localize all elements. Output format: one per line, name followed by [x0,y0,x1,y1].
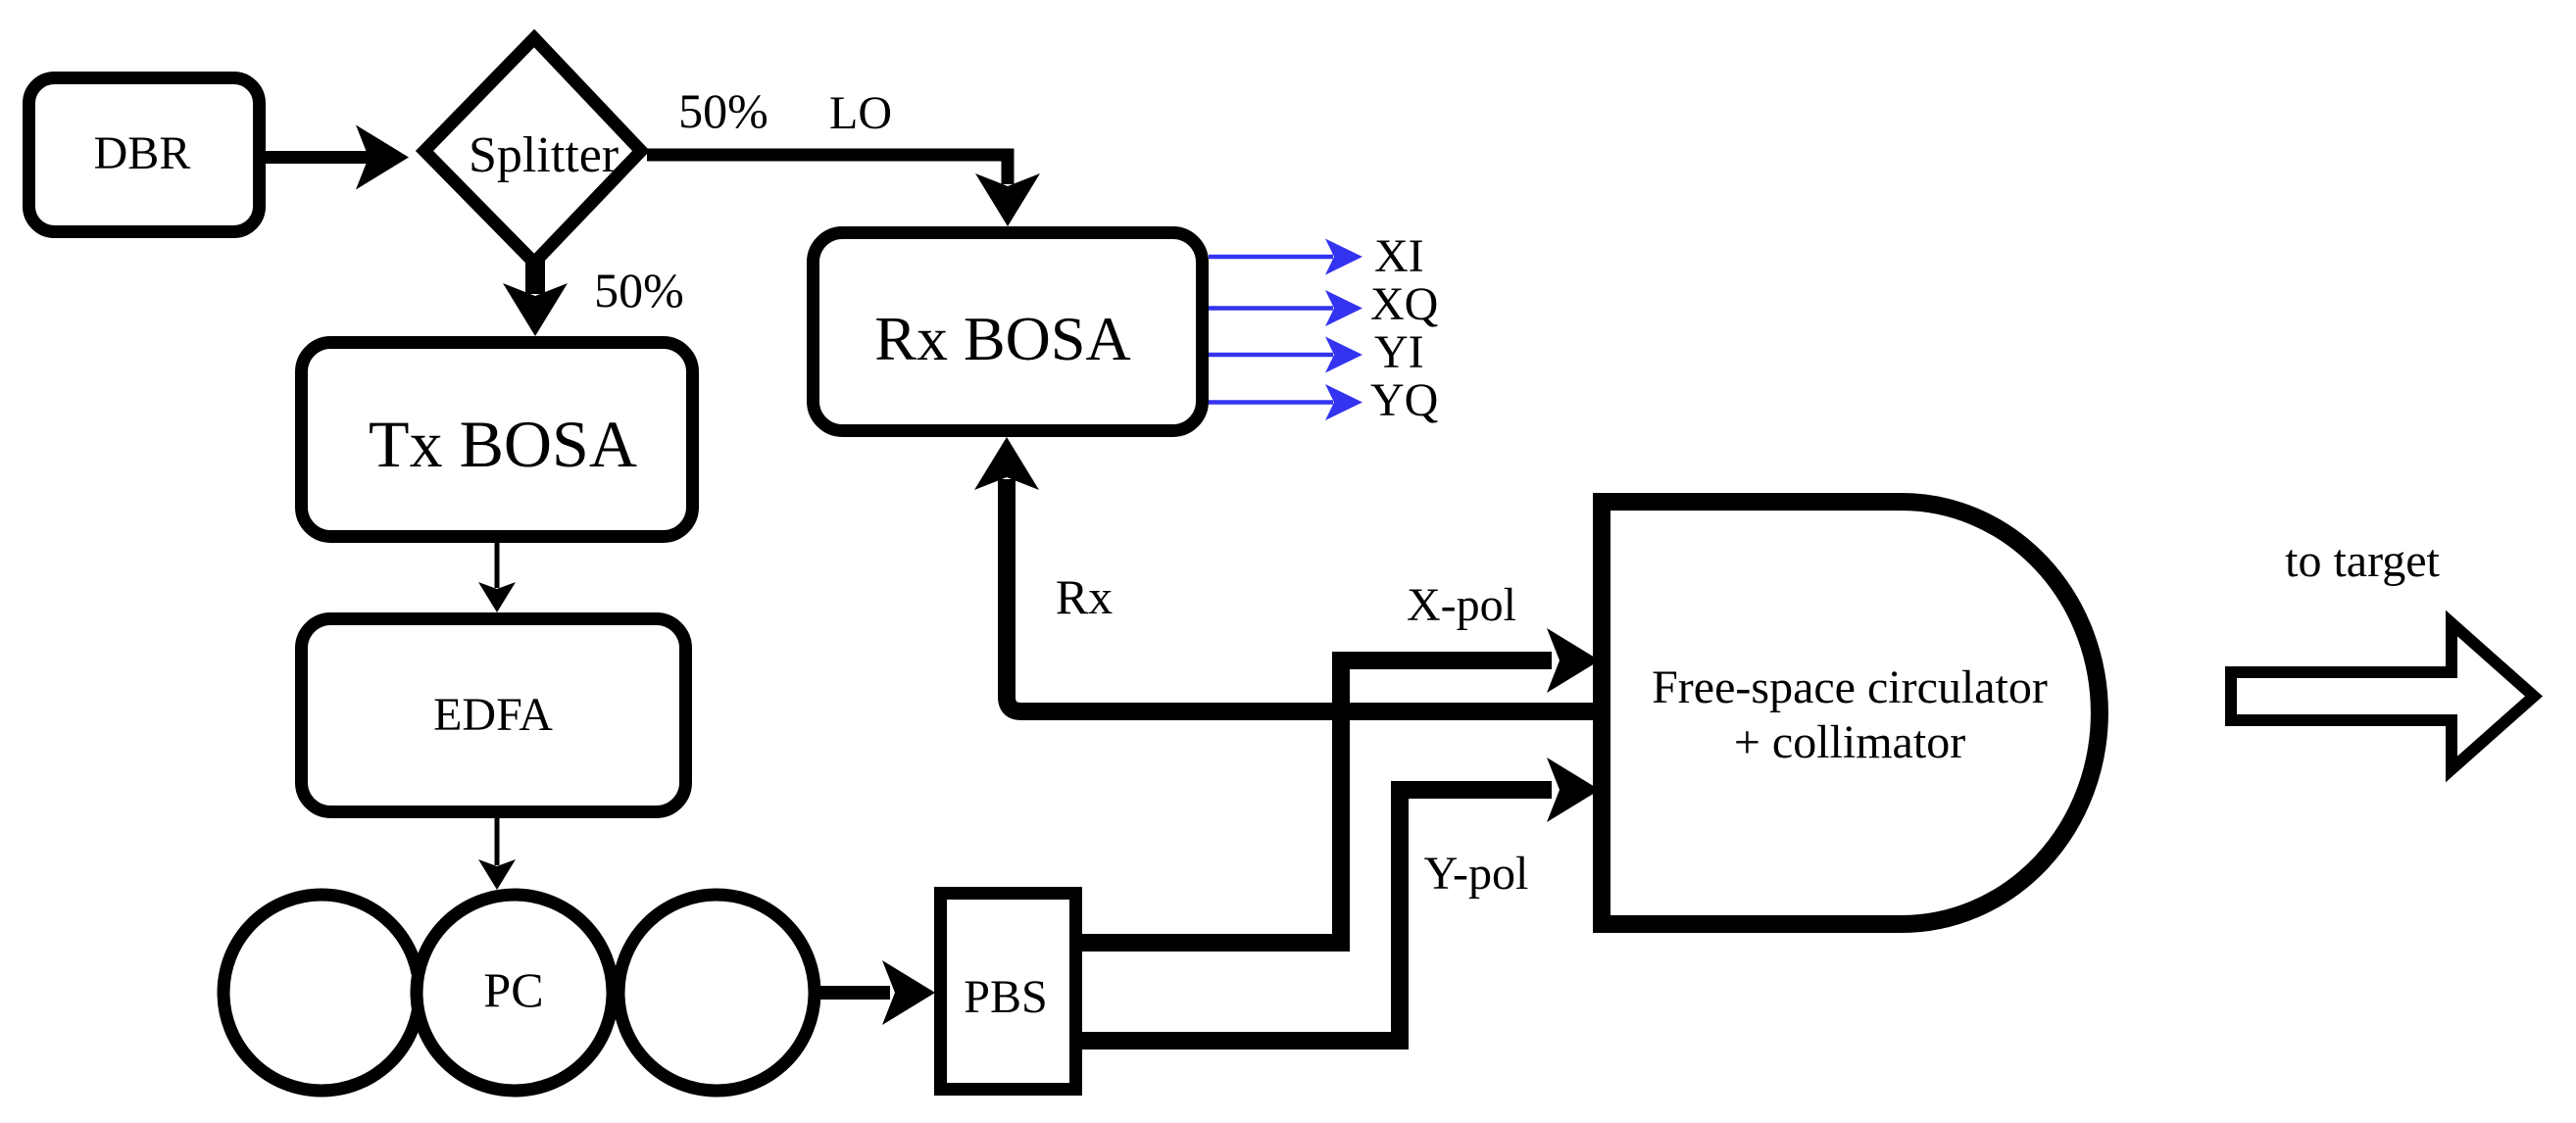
svg-text:XQ: XQ [1370,278,1438,330]
svg-text:50%: 50% [594,263,684,317]
svg-text:to target: to target [2285,535,2440,587]
svg-text:XI: XI [1374,230,1424,282]
svg-text:Y-pol: Y-pol [1424,848,1529,900]
svg-text:+ collimator: + collimator [1734,716,1965,768]
svg-text:LO: LO [829,87,892,139]
svg-text:YQ: YQ [1370,374,1438,426]
svg-text:Tx BOSA: Tx BOSA [369,407,637,481]
svg-text:YI: YI [1374,326,1424,378]
svg-text:Free-space circulator: Free-space circulator [1652,661,2048,713]
svg-text:Splitter: Splitter [469,127,619,183]
svg-text:EDFA: EDFA [433,689,553,741]
svg-text:PC: PC [483,962,543,1017]
svg-text:X-pol: X-pol [1407,579,1516,631]
svg-text:Rx: Rx [1056,569,1113,624]
svg-text:PBS: PBS [964,971,1047,1023]
svg-text:DBR: DBR [94,127,191,179]
svg-text:50%: 50% [678,83,768,138]
svg-text:Rx BOSA: Rx BOSA [874,304,1130,373]
